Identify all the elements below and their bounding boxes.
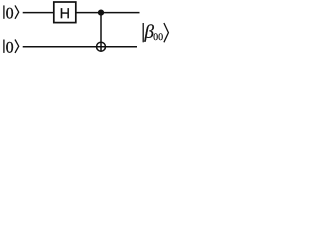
svg-text:0: 0 (6, 39, 14, 56)
wire CNOT vertical (100, 13, 102, 52)
ket |0> label qubit 0 (4, 5, 19, 18)
control dot on qubit 0 (98, 10, 104, 16)
wire top (qubit 0) (23, 12, 140, 14)
gate H box U1 (54, 2, 76, 23)
CNOT target circle on qubit 1 (97, 42, 106, 51)
wire bottom (qubit 1) (23, 46, 137, 48)
svg-text:0: 0 (6, 5, 14, 22)
background (0, 0, 177, 60)
ket |beta00> output label (143, 23, 168, 42)
ket |0> label qubit 1 (4, 40, 19, 53)
svg-text:H: H (60, 6, 70, 22)
svg-text:00: 00 (153, 32, 163, 43)
